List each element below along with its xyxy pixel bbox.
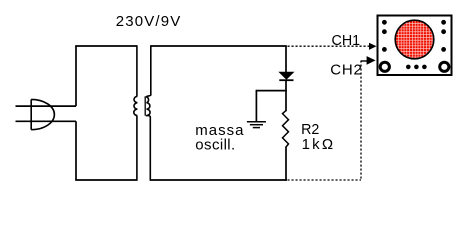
wire left-loop bottom bbox=[75, 179, 137, 181]
probe CH2 arrowhead bbox=[367, 56, 376, 65]
wire left-loop left side upper bbox=[75, 46, 77, 106]
oscilloscope knob dot left 2 bbox=[382, 29, 387, 34]
oscilloscope knob dot left 3 bbox=[382, 47, 387, 52]
wire secondary-loop bottom bbox=[150, 179, 286, 181]
svg-text:oscill.: oscill. bbox=[195, 136, 235, 153]
oscilloscope button dot 1 bbox=[406, 65, 411, 70]
transformer T1 core bbox=[144, 96, 146, 115]
probe CH1 dashed wire bbox=[288, 45, 370, 47]
transformer T1 primary winding bbox=[134, 45, 138, 181]
ground symbol bar2 bbox=[250, 124, 263, 126]
probe CH2 dashed wire bottom bbox=[288, 179, 362, 181]
oscilloscope screen bbox=[395, 20, 434, 59]
plug lower prong wire bbox=[16, 120, 77, 122]
svg-text:CH2: CH2 bbox=[330, 62, 362, 79]
oscilloscope knob dot right 3 bbox=[441, 47, 446, 52]
transformer T1 secondary winding bbox=[147, 45, 151, 181]
wire diode cathode to resistor bbox=[285, 80, 287, 111]
svg-text:1kΩ: 1kΩ bbox=[302, 136, 336, 153]
oscilloscope knob dot right 1 bbox=[441, 20, 446, 25]
probe CH1 arrowhead bbox=[369, 43, 377, 50]
wire diode anode bbox=[285, 46, 287, 73]
wire resistor bottom bbox=[285, 147, 287, 181]
oscilloscope button dot 3 bbox=[422, 65, 427, 70]
oscilloscope knob dot right 2 bbox=[441, 29, 446, 34]
probe CH2 dashed wire vertical bbox=[360, 61, 362, 181]
oscilloscope ring knob left bbox=[380, 62, 389, 71]
ground symbol bar1 bbox=[247, 121, 266, 123]
plug upper prong wire bbox=[16, 105, 77, 107]
wire left-loop top bbox=[75, 45, 137, 47]
oscilloscope knob dot left 1 bbox=[382, 20, 387, 25]
oscilloscope button dot 2 bbox=[414, 65, 419, 70]
oscilloscope body bbox=[378, 16, 452, 76]
wire left-loop left side lower bbox=[75, 121, 77, 180]
wire ground branch horizontal bbox=[256, 90, 286, 92]
resistor R2 zigzag bbox=[283, 111, 289, 147]
wire secondary-loop top bbox=[151, 45, 287, 47]
diode D1 triangle bbox=[279, 72, 293, 79]
diode D1 cathode bar bbox=[279, 79, 293, 81]
probe CH2 short lead bbox=[361, 60, 368, 62]
ground symbol bar3 bbox=[253, 127, 260, 129]
plug P1 body bbox=[31, 99, 54, 129]
oscilloscope ring knob right bbox=[440, 62, 449, 71]
wire ground branch vertical bbox=[255, 90, 257, 122]
svg-text:230V/9V: 230V/9V bbox=[116, 13, 182, 30]
